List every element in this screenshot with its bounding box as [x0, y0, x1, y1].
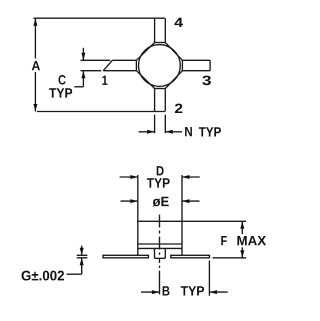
dimension C arrows	[74, 48, 85, 87]
dimension label B TYP	[163, 286, 170, 295]
dimension N arrows	[139, 130, 183, 134]
center stub (leads 2 and 4 edge-on)	[155, 248, 166, 258]
lead 2 (bottom)	[155, 89, 166, 112]
dimension label F MAX	[221, 236, 227, 245]
lead 1 (left) with break slash	[81, 60, 137, 70]
dimension label A	[32, 61, 40, 70]
pin number 3	[202, 76, 211, 86]
dimension F bottom extension line	[213, 257, 247, 259]
pin number 2	[175, 104, 183, 113]
dimension label D TYP	[157, 166, 164, 175]
can outline circle	[139, 45, 181, 87]
dimension A top extension line	[34, 17, 165, 19]
dimension G arrows and leader	[67, 246, 84, 275]
dimension A line with arrows	[33, 18, 37, 111]
lead 4 (top)	[155, 18, 166, 42]
can chamfer edges	[136, 43, 182, 89]
dimension label N TYP	[185, 127, 192, 136]
centerline	[159, 215, 161, 295]
side view seam lines	[138, 244, 182, 248]
side view can top and F extension	[138, 220, 246, 222]
dimension label G±.002	[22, 271, 65, 281]
pin number 1	[102, 76, 107, 85]
dimension A bottom extension line	[37, 111, 165, 113]
dimension B arrows	[141, 290, 228, 294]
dimension B right extension line	[208, 261, 210, 296]
side view can body walls and extension lines	[138, 175, 182, 255]
dimension label C TYP	[59, 75, 66, 85]
dimension label øE	[153, 197, 169, 207]
flange lead right bar	[171, 255, 210, 257]
dimension F line with arrows	[240, 221, 244, 257]
lead 3 (right)	[182, 60, 210, 70]
dimension D arrows	[120, 175, 200, 179]
pin number 4	[174, 18, 183, 27]
flange lead left bar	[103, 255, 148, 257]
dimension E arrows	[121, 199, 200, 203]
dimension N extension lines	[155, 115, 166, 134]
lead 1 broken tip piece (G extension lines)	[77, 255, 88, 257]
